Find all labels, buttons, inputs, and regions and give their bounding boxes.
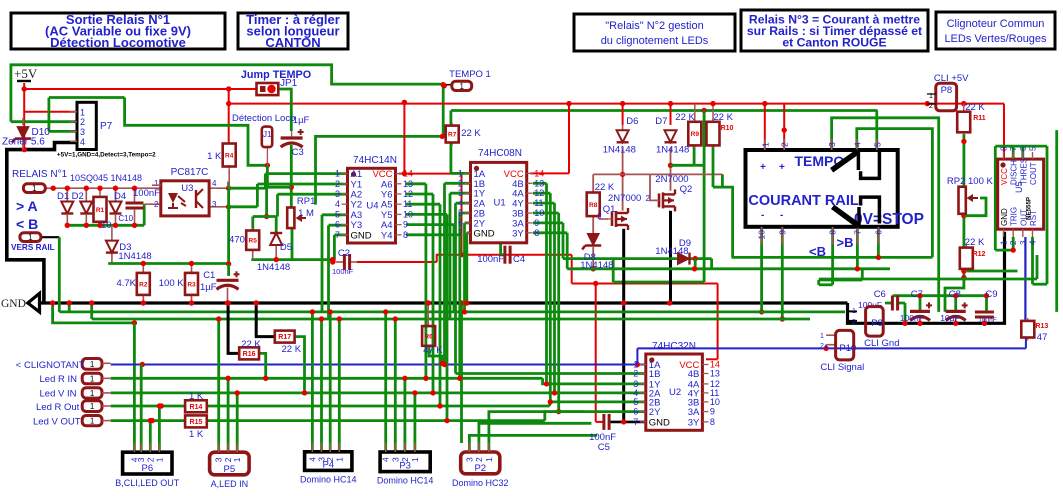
svg-text:2N7000: 2N7000 (608, 193, 641, 204)
svg-text:2: 2 (335, 179, 340, 189)
svg-text:4: 4 (212, 179, 217, 188)
svg-text:100nF: 100nF (477, 254, 504, 265)
svg-text:1N4148: 1N4148 (257, 262, 290, 273)
svg-text:Clignoteur Commun: Clignoteur Commun (947, 18, 1045, 30)
svg-text:12: 12 (403, 189, 413, 199)
svg-text:9: 9 (534, 218, 539, 228)
svg-text:10: 10 (710, 397, 720, 407)
svg-text:10: 10 (101, 220, 112, 231)
svg-text:P4: P4 (322, 459, 334, 470)
svg-text:Led V IN: Led V IN (40, 389, 77, 400)
svg-text:C3: C3 (292, 147, 304, 158)
svg-text:P6: P6 (141, 463, 153, 474)
svg-text:"Relais" N°2 gestion: "Relais" N°2 gestion (605, 20, 703, 32)
svg-text:P9: P9 (871, 318, 883, 329)
svg-text:Détection Loco: Détection Loco (232, 113, 295, 124)
svg-text:B,CLI,LED OUT: B,CLI,LED OUT (115, 478, 180, 488)
svg-text:P3: P3 (399, 461, 411, 472)
svg-text:>B: >B (837, 235, 854, 250)
svg-text:+: + (760, 162, 766, 173)
svg-text:8: 8 (403, 230, 408, 240)
svg-text:Y4: Y4 (381, 230, 393, 241)
svg-text:3: 3 (464, 457, 474, 462)
svg-text:3: 3 (458, 188, 463, 198)
svg-text:1 M: 1 M (298, 208, 314, 219)
svg-text:LEDs Vertes/Rouges: LEDs Vertes/Rouges (944, 33, 1047, 45)
svg-text:Led R Out: Led R Out (36, 402, 80, 413)
svg-text:3Y: 3Y (688, 417, 700, 428)
svg-text:VCC: VCC (1000, 168, 1009, 185)
svg-text:1N4148: 1N4148 (580, 260, 613, 271)
svg-text:et Canton ROUGE: et Canton ROUGE (782, 35, 886, 49)
svg-text:1: 1 (80, 107, 85, 117)
svg-text:TEMPO 1: TEMPO 1 (449, 69, 491, 80)
svg-text:Domino HC32: Domino HC32 (452, 478, 509, 488)
svg-text:C1: C1 (203, 270, 215, 281)
svg-text:Détection Locomotive: Détection Locomotive (50, 35, 186, 50)
svg-text:C4: C4 (513, 254, 525, 265)
svg-text:3: 3 (80, 127, 85, 137)
svg-text:6: 6 (335, 220, 340, 230)
svg-text:1 K: 1 K (189, 429, 204, 440)
svg-text:RP1: RP1 (297, 196, 315, 207)
svg-text:3: 3 (335, 189, 340, 199)
svg-text:R1: R1 (96, 207, 105, 214)
svg-text:2: 2 (154, 200, 159, 209)
svg-text:2: 2 (1009, 240, 1018, 245)
svg-text:Zener 5.6: Zener 5.6 (2, 137, 45, 148)
svg-text:1: 1 (90, 375, 95, 384)
svg-text:1: 1 (410, 457, 420, 462)
svg-text:C8: C8 (949, 289, 961, 300)
svg-text:22 K: 22 K (461, 128, 481, 139)
svg-text:2: 2 (474, 457, 484, 462)
svg-text:GND: GND (1, 298, 26, 310)
svg-text:9: 9 (403, 220, 408, 230)
svg-text:NE555P: NE555P (1026, 197, 1033, 220)
svg-text:P2: P2 (474, 463, 486, 474)
svg-text:R11: R11 (973, 115, 986, 122)
svg-text:1N4148: 1N4148 (118, 251, 151, 262)
svg-text:1: 1 (90, 389, 95, 398)
svg-text:R4: R4 (225, 153, 234, 160)
svg-text:R3: R3 (187, 281, 196, 288)
svg-text:4: 4 (335, 199, 340, 209)
svg-text:CANTON: CANTON (265, 35, 320, 50)
svg-text:4: 4 (852, 142, 862, 147)
svg-text:3: 3 (827, 142, 837, 147)
svg-text:1: 1 (820, 333, 824, 340)
svg-text:Led R IN: Led R IN (40, 374, 78, 385)
svg-text:12: 12 (534, 188, 544, 198)
svg-text:Q2: Q2 (680, 184, 693, 195)
svg-text:100nF: 100nF (332, 267, 354, 276)
svg-text:Led V OUT: Led V OUT (33, 417, 81, 428)
svg-text:du clignotement LEDs: du clignotement LEDs (601, 35, 709, 47)
svg-text:2: 2 (646, 194, 651, 203)
svg-text:R14: R14 (190, 404, 203, 411)
svg-text:1N4148: 1N4148 (656, 145, 689, 156)
svg-text:R16: R16 (243, 351, 256, 358)
svg-text:2: 2 (458, 178, 463, 188)
svg-text:1: 1 (90, 360, 95, 369)
svg-text:1N4148: 1N4148 (655, 246, 688, 257)
svg-text:11: 11 (403, 199, 412, 209)
svg-text:2: 2 (80, 117, 85, 127)
svg-text:R12: R12 (973, 251, 986, 258)
svg-text:10µF: 10µF (940, 313, 960, 323)
svg-text:RP2 100 K: RP2 100 K (947, 176, 994, 187)
svg-text:0V=STOP: 0V=STOP (854, 211, 924, 228)
svg-text:CLI Gnd: CLI Gnd (864, 338, 899, 349)
svg-text:1 K: 1 K (189, 391, 204, 402)
svg-text:1: 1 (334, 457, 344, 462)
svg-text:10: 10 (757, 230, 767, 240)
svg-text:4: 4 (80, 137, 85, 147)
svg-text:6: 6 (1019, 146, 1028, 151)
svg-text:47 K: 47 K (423, 345, 443, 356)
svg-text:Jump TEMPO: Jump TEMPO (241, 69, 311, 81)
svg-text:3: 3 (1019, 240, 1028, 245)
svg-text:+5V=1,GND=4,Detect=3,Tempo=2: +5V=1,GND=4,Detect=3,Tempo=2 (57, 151, 156, 158)
svg-text:+: + (779, 162, 785, 173)
svg-text:P7: P7 (100, 121, 113, 132)
svg-text:1N4148: 1N4148 (603, 145, 636, 156)
svg-text:100uF: 100uF (858, 300, 882, 310)
svg-text:1: 1 (90, 417, 95, 426)
svg-text:DISCH: DISCH (1010, 160, 1019, 185)
svg-text:8: 8 (710, 417, 715, 427)
svg-text:THRES: THRES (1019, 158, 1028, 185)
svg-text:GND: GND (649, 417, 670, 428)
svg-text:1: 1 (154, 179, 159, 188)
svg-text:P5: P5 (224, 464, 236, 475)
svg-text:A,LED IN: A,LED IN (211, 479, 249, 489)
svg-text:D7: D7 (655, 116, 667, 127)
svg-text:R5: R5 (249, 238, 258, 245)
svg-text:74HC32N: 74HC32N (652, 341, 696, 352)
svg-text:< B: < B (16, 216, 38, 232)
svg-text:22 K: 22 K (241, 339, 261, 350)
svg-text:6: 6 (633, 407, 638, 417)
svg-text:2: 2 (852, 319, 856, 326)
svg-text:2: 2 (820, 343, 824, 350)
svg-text:U1: U1 (494, 198, 506, 209)
svg-text:11: 11 (534, 198, 543, 208)
svg-text:5: 5 (458, 208, 463, 218)
svg-text:22 K: 22 K (282, 344, 302, 355)
svg-text:D5: D5 (280, 242, 292, 253)
svg-text:14: 14 (534, 168, 544, 178)
svg-text:C7: C7 (911, 289, 923, 300)
svg-text:R2: R2 (139, 281, 148, 288)
svg-text:1B: 1B (649, 369, 661, 380)
svg-text:R13: R13 (1035, 323, 1048, 330)
svg-text:D6: D6 (626, 116, 638, 127)
svg-text:7: 7 (335, 230, 340, 240)
svg-text:CLI Signal: CLI Signal (820, 362, 864, 373)
svg-text:470: 470 (229, 235, 245, 246)
svg-text:14: 14 (403, 169, 413, 179)
svg-text:8: 8 (828, 230, 838, 235)
svg-text:2: 2 (780, 142, 790, 147)
svg-text:9: 9 (777, 230, 787, 235)
svg-text:+5V: +5V (14, 66, 38, 81)
svg-text:C10: C10 (118, 214, 133, 223)
svg-text:< CLIGNOTANT: < CLIGNOTANT (16, 360, 85, 371)
svg-text:C5: C5 (598, 442, 610, 453)
svg-text:R8: R8 (589, 202, 598, 209)
svg-text:<B: <B (809, 244, 826, 259)
svg-text:7: 7 (1009, 146, 1018, 151)
svg-text:RELAIS N°1: RELAIS N°1 (12, 169, 68, 180)
svg-text:7: 7 (852, 230, 862, 235)
svg-text:> A: > A (16, 198, 38, 214)
svg-text:J1: J1 (263, 130, 272, 139)
svg-text:D4: D4 (114, 191, 126, 202)
svg-text:C9: C9 (985, 289, 997, 300)
svg-text:1: 1 (458, 168, 463, 178)
svg-text:6: 6 (873, 230, 883, 235)
svg-text:13: 13 (403, 179, 413, 189)
svg-text:1: 1 (760, 142, 770, 147)
svg-text:2: 2 (633, 369, 638, 379)
svg-text:13: 13 (710, 369, 720, 379)
svg-text:COURANT RAIL: COURANT RAIL (748, 193, 858, 209)
svg-text:100 K: 100 K (159, 278, 184, 289)
svg-text:2: 2 (597, 212, 602, 221)
svg-text:5: 5 (335, 209, 340, 219)
svg-text:C2: C2 (338, 248, 350, 259)
svg-text:R15: R15 (190, 419, 203, 426)
svg-text:4: 4 (1029, 240, 1038, 245)
svg-text:1: 1 (232, 457, 242, 462)
svg-text:R17: R17 (278, 334, 291, 341)
svg-text:TRIG: TRIG (1010, 207, 1019, 226)
svg-text:Domino HC14: Domino HC14 (300, 474, 357, 484)
svg-text:GND: GND (351, 230, 372, 241)
svg-text:1: 1 (460, 82, 465, 91)
svg-text:U4: U4 (366, 201, 378, 212)
svg-text:P8: P8 (941, 85, 953, 96)
svg-text:VERS RAIL: VERS RAIL (11, 243, 55, 252)
svg-text:13: 13 (534, 178, 544, 188)
svg-text:100nF: 100nF (133, 188, 160, 199)
svg-text:R6: R6 (424, 333, 433, 340)
svg-text:8: 8 (1000, 146, 1009, 151)
svg-text:74HC14N: 74HC14N (353, 155, 397, 166)
svg-text:5: 5 (872, 142, 882, 147)
svg-text:D2: D2 (72, 191, 84, 202)
svg-text:1µF: 1µF (200, 282, 217, 293)
svg-text:100nF: 100nF (900, 313, 924, 323)
svg-text:Q1: Q1 (603, 204, 616, 215)
svg-text:3Y: 3Y (512, 228, 524, 239)
svg-text:U2: U2 (669, 387, 681, 398)
svg-text:U5: U5 (1014, 181, 1024, 193)
svg-text:GND: GND (1000, 208, 1009, 226)
svg-text:22 K: 22 K (595, 182, 615, 193)
svg-text:10: 10 (403, 209, 413, 219)
svg-text:Domino HC14: Domino HC14 (377, 476, 434, 486)
svg-text:PC817C: PC817C (171, 167, 209, 178)
svg-text:4B: 4B (688, 369, 700, 380)
svg-text:5: 5 (1029, 146, 1038, 151)
svg-text:1: 1 (154, 457, 164, 462)
svg-text:22 K: 22 K (713, 112, 733, 123)
svg-text:1: 1 (484, 457, 494, 462)
svg-text:1: 1 (1000, 240, 1009, 245)
svg-text:7: 7 (633, 417, 638, 427)
svg-text:5: 5 (633, 397, 638, 407)
svg-text:-: - (761, 210, 764, 221)
svg-text:1: 1 (28, 233, 33, 242)
svg-text:4: 4 (458, 198, 463, 208)
svg-text:C6: C6 (874, 289, 886, 300)
svg-text:6: 6 (458, 218, 463, 228)
svg-text:4: 4 (381, 457, 391, 462)
svg-text:7: 7 (458, 228, 463, 238)
svg-text:P10: P10 (839, 343, 856, 354)
svg-text:1: 1 (335, 169, 340, 179)
svg-text:1: 1 (90, 402, 95, 411)
svg-text:CLI +5V: CLI +5V (934, 73, 969, 84)
svg-text:9: 9 (710, 407, 715, 417)
svg-text:22 K: 22 K (965, 237, 985, 248)
svg-text:-: - (780, 210, 783, 221)
svg-text:4.7K: 4.7K (116, 278, 136, 289)
svg-text:74HC08N: 74HC08N (478, 148, 522, 159)
svg-text:R7: R7 (448, 132, 457, 139)
svg-text:22 K: 22 K (965, 102, 985, 113)
svg-text:1µF: 1µF (293, 115, 310, 126)
svg-text:8: 8 (534, 228, 539, 238)
svg-text:GND: GND (474, 228, 495, 239)
svg-text:1: 1 (32, 184, 37, 193)
svg-text:COUT: COUT (1029, 162, 1038, 185)
svg-text:1 K: 1 K (207, 151, 222, 162)
svg-text:3: 3 (212, 200, 217, 209)
svg-text:D1: D1 (57, 191, 69, 202)
svg-text:1: 1 (852, 308, 856, 315)
svg-text:100nF: 100nF (978, 317, 996, 324)
svg-text:R10: R10 (721, 125, 734, 132)
svg-text:U3: U3 (181, 183, 193, 194)
svg-text:10SQ045 1N4148: 10SQ045 1N4148 (70, 173, 142, 183)
svg-text:R9: R9 (691, 131, 700, 138)
svg-text:10: 10 (534, 208, 544, 218)
svg-text:47: 47 (1037, 332, 1048, 343)
svg-text:22 K: 22 K (675, 112, 695, 123)
